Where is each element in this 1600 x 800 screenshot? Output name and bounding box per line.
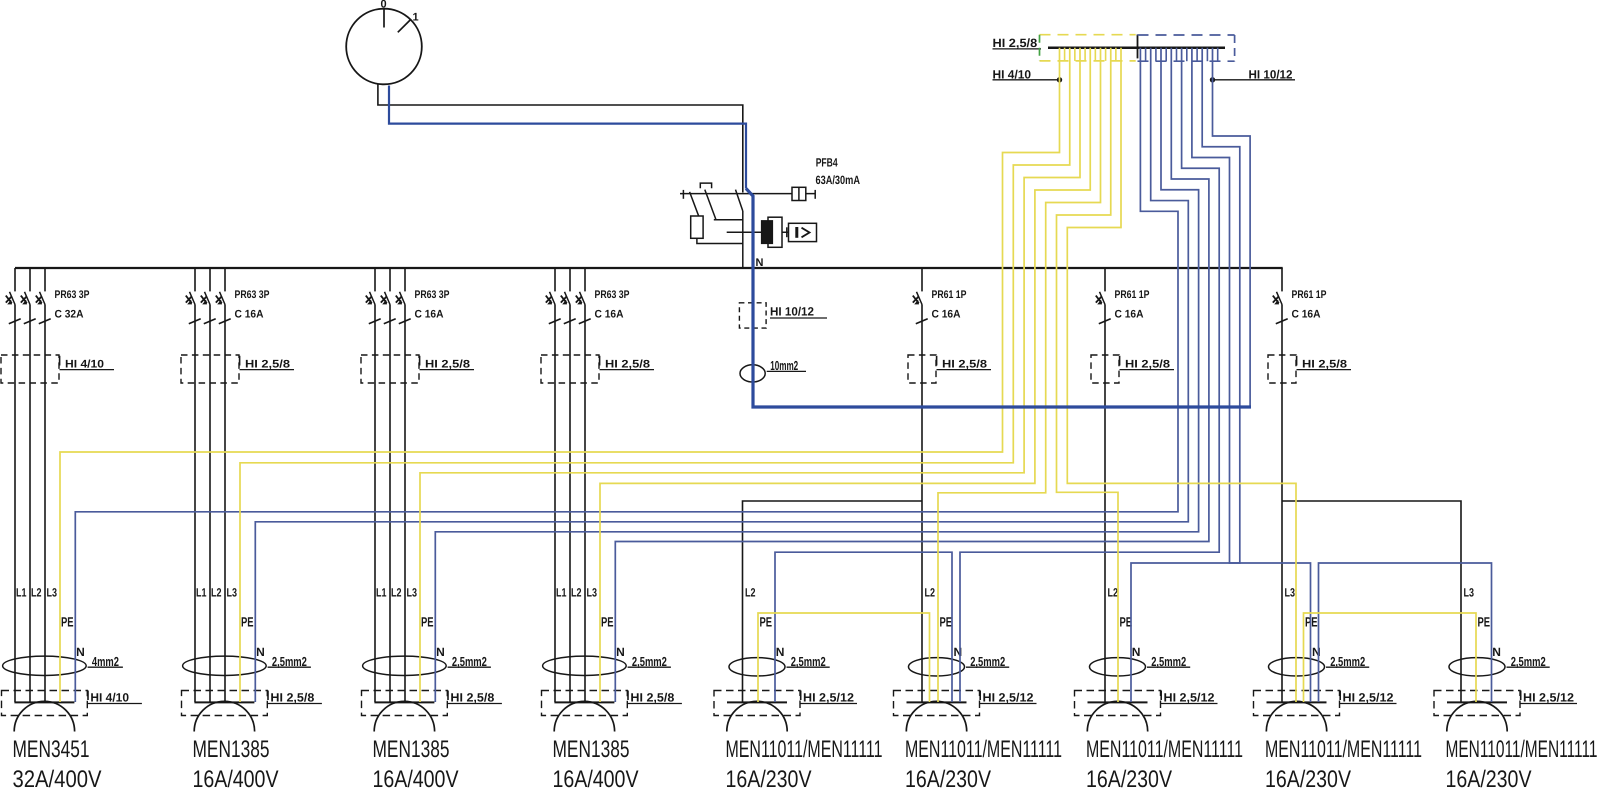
svg-text:PE: PE: [421, 615, 434, 630]
spare blue conductor stub 7: [1206, 48, 1208, 62]
breaker F5 pole (PR61 1P): [921, 268, 923, 291]
svg-text:HI 2,5/12: HI 2,5/12: [983, 690, 1034, 704]
wire N blue from tray to outlet 8 N: [1192, 48, 1311, 702]
cable box bracket outlet 4: [627, 691, 629, 701]
RCD right terminal tick: [814, 190, 816, 199]
leader dot HI 4/10: [1057, 77, 1062, 82]
svg-text:16A/230V: 16A/230V: [905, 766, 991, 793]
svg-text:PR63 3P: PR63 3P: [55, 289, 90, 301]
spare yellow conductor stub 2: [1074, 48, 1076, 61]
spare blue conductor stub 6: [1196, 48, 1198, 62]
RCD phase blade: [736, 190, 743, 211]
svg-text:16A/230V: 16A/230V: [1265, 766, 1351, 793]
svg-text:PE: PE: [1478, 615, 1491, 630]
cable box outlet 1: [2, 691, 88, 716]
svg-text:PR63 3P: PR63 3P: [235, 289, 270, 301]
svg-text:MEN1385: MEN1385: [553, 736, 630, 763]
label HI 2,5/12 underline outlet 7: [1161, 703, 1218, 705]
outlet 3 arc symbol: [374, 701, 434, 731]
label 2,5mm2 underline outlet 8: [1326, 666, 1369, 668]
label 2,5mm2 underline outlet 4: [628, 666, 671, 668]
RCD pole b link line: [714, 219, 743, 221]
svg-text:PE: PE: [940, 615, 953, 630]
cable box bracket outlet 6: [979, 691, 981, 701]
breaker F2 pole 2 (PR63 3P): [209, 268, 211, 291]
spare blue conductor stub 2: [1155, 48, 1157, 62]
svg-text:HI 10/12: HI 10/12: [770, 305, 814, 319]
label HI 2,5/12 underline outlet 8: [1340, 703, 1397, 705]
label underline under breaker F2: [240, 369, 295, 371]
svg-text:MEN1385: MEN1385: [193, 736, 270, 763]
breaker F1 pole 2 (PR63 3P): [29, 268, 31, 291]
outlet terminal bar 9: [1447, 701, 1507, 703]
outlet 2 arc symbol: [194, 701, 254, 731]
cable ellipse outlet 1: [3, 656, 87, 675]
svg-text:C 16A: C 16A: [932, 309, 961, 321]
leader dot HI 10/12: [1210, 77, 1215, 82]
wire N blue tray to N-bus end: [1213, 48, 1251, 407]
breaker F4 pole 3 (PR63 3P): [584, 268, 586, 291]
label HI 2,5/8 underline outlet 3: [448, 703, 502, 705]
RCD test button divider: [798, 187, 800, 200]
label underline under breaker F4: [600, 369, 655, 371]
wire PE yellow from tray to outlet 2 PE: [240, 48, 1070, 702]
label underline under breaker F1: [60, 369, 115, 371]
svg-text:HI 2,5/8: HI 2,5/8: [942, 359, 987, 371]
wire PE yellow from tray to outlet 3 PE: [420, 48, 1080, 702]
svg-text:L2: L2: [211, 586, 222, 600]
svg-text:HI 4/10: HI 4/10: [90, 690, 129, 704]
svg-text:L2: L2: [391, 586, 402, 600]
svg-text:L1: L1: [556, 586, 567, 600]
svg-text:L2: L2: [745, 586, 756, 600]
wire L2 breaker F3 to outlet 3: [389, 305, 391, 703]
outlet 7 arc symbol: [1087, 701, 1147, 731]
cable box bracket F6: [1119, 356, 1121, 366]
cable box under breaker F1: [1, 355, 59, 383]
svg-text:63A/30mA: 63A/30mA: [816, 173, 861, 187]
outlet 4 arc symbol: [554, 701, 614, 731]
spare yellow conductor stub 4: [1094, 48, 1096, 61]
breaker F1 pole 3 (PR63 3P): [44, 268, 46, 291]
label 2,5mm2 underline outlet 7: [1147, 666, 1190, 668]
cable ellipse outlet 8: [1269, 658, 1325, 676]
wire L2 breaker F6 to outlet 7: [1104, 305, 1106, 703]
svg-text:C 16A: C 16A: [235, 309, 264, 321]
label HI 2,5/12 underline outlet 9: [1521, 703, 1578, 705]
label 10mm2 underline: [767, 370, 806, 372]
wire L3 breaker F4 to outlet 4: [584, 305, 586, 703]
svg-text:L2: L2: [571, 586, 582, 600]
cable box under breaker F6: [1091, 355, 1119, 383]
wire L1 breaker F4 to outlet 4: [554, 305, 556, 703]
label 4mm2 underline outlet 1: [88, 666, 123, 668]
cable marker HI 10/12 dashed box: [739, 303, 766, 328]
outlet 9 arc symbol: [1447, 701, 1507, 731]
svg-text:L3: L3: [227, 586, 238, 600]
wire PE yellow from tray to outlet 1 PE: [60, 48, 1060, 702]
svg-text:HI 2,5/8: HI 2,5/8: [993, 36, 1038, 50]
svg-text:MEN11011/MEN11111: MEN11011/MEN11111: [1446, 736, 1598, 763]
outlet 5 arc symbol: [727, 701, 787, 731]
N bus from RCD (thick blue): [746, 189, 1251, 408]
svg-text:C 16A: C 16A: [415, 309, 444, 321]
svg-text:N: N: [954, 645, 963, 659]
svg-text:N: N: [756, 257, 764, 269]
svg-text:MEN11011/MEN11111: MEN11011/MEN11111: [1265, 736, 1422, 763]
svg-text:HI 2,5/12: HI 2,5/12: [1164, 690, 1215, 704]
RCD PFB4 terminal line: [680, 193, 815, 195]
cable box bracket F3: [419, 356, 421, 366]
outlet terminal bar 3: [374, 701, 434, 703]
RCD mechanical linkage: [700, 183, 711, 188]
leader HI 10/12: [1213, 79, 1296, 81]
wire neutral meter to RCD (blue): [389, 86, 746, 189]
outlet terminal bar 8: [1267, 701, 1327, 703]
svg-text:PFB4: PFB4: [816, 155, 838, 169]
svg-text:HI 2,5/12: HI 2,5/12: [803, 690, 854, 704]
spare yellow conductor stub 1: [1064, 48, 1066, 61]
label HI 2,5/12 underline outlet 5: [801, 703, 858, 705]
label HI 2,5/8 top underline: [993, 48, 1042, 50]
cable ellipse outlet 3: [363, 656, 447, 675]
wire L2 tap outlet 6 to outlet 5: [743, 501, 923, 702]
label HI 2,5/8 underline outlet 4: [628, 703, 682, 705]
RCD relay symbol arrow: [802, 228, 810, 238]
cable tray divider: [1137, 35, 1139, 59]
svg-text:PR61 1P: PR61 1P: [1115, 289, 1150, 301]
cable box outlet 5: [714, 691, 800, 716]
cable box outlet 4: [542, 691, 628, 716]
spare yellow conductor stub 5: [1105, 48, 1107, 61]
RCD toroid outline: [768, 217, 782, 247]
wire N blue from tray to outlet 7 N: [1131, 48, 1240, 702]
svg-text:N: N: [256, 645, 265, 659]
wire PE yellow from tray to outlet 4 PE: [600, 48, 1090, 702]
cable ellipse outlet 2: [183, 656, 267, 675]
svg-text:L3: L3: [587, 586, 598, 600]
svg-text:HI 2,5/8: HI 2,5/8: [1302, 359, 1347, 371]
cable box bracket outlet 5: [800, 691, 802, 701]
label HI 2,5/8 underline outlet 2: [268, 703, 322, 705]
outlet 1 arc symbol: [14, 701, 74, 731]
wire L3 breaker F7 to outlet 8: [1281, 305, 1283, 703]
svg-text:16A/230V: 16A/230V: [726, 766, 812, 793]
meter position tick 1: [398, 20, 411, 32]
wire PE yellow from tray to outlet 8 PE: [1067, 48, 1296, 702]
svg-text:HI 4/10: HI 4/10: [65, 359, 104, 371]
outlet terminal bar 5: [727, 701, 787, 703]
RCD relay symbol I: [795, 227, 798, 238]
spare yellow conductor stub 6: [1115, 48, 1117, 61]
svg-text:HI 2,5/8: HI 2,5/8: [450, 690, 494, 704]
svg-text:N: N: [1132, 645, 1141, 659]
cable box bracket outlet 7: [1160, 691, 1162, 701]
outlet terminal bar 1: [14, 701, 74, 703]
svg-text:PE: PE: [241, 615, 254, 630]
label HI 4/10 underline outlet 1: [88, 703, 142, 705]
svg-text:L1: L1: [196, 586, 207, 600]
svg-text:PE: PE: [760, 615, 773, 630]
breaker F2 pole 1 (PR63 3P): [194, 268, 196, 291]
wire PE bridge outlet 8 to outlet 9 (yellow): [1304, 613, 1477, 702]
cable box under breaker F7: [1268, 355, 1296, 383]
main switch meter symbol (circle): [346, 9, 422, 85]
wire L2 breaker F4 to outlet 4: [569, 305, 571, 703]
cable box outlet 9: [1434, 691, 1520, 716]
cable box under breaker F3: [361, 355, 419, 383]
svg-text:HI 2,5/12: HI 2,5/12: [1343, 690, 1394, 704]
svg-text:N: N: [616, 645, 625, 659]
svg-text:MEN11011/MEN11111: MEN11011/MEN11111: [726, 736, 883, 763]
label 2,5mm2 underline outlet 3: [448, 666, 491, 668]
cable box outlet 7: [1075, 691, 1161, 716]
label underline under breaker F3: [420, 369, 475, 371]
wire PE bridge outlet 6 to outlet 5 (yellow): [758, 613, 930, 702]
RCD relay box tick: [786, 227, 788, 237]
label 2,5mm2 underline outlet 9: [1507, 666, 1550, 668]
cable tray bus bar: [1048, 46, 1225, 49]
wire PE yellow from tray to outlet 7 PE: [1057, 48, 1119, 702]
svg-text:HI 2,5/8: HI 2,5/8: [1125, 359, 1170, 371]
cable box bracket outlet 2: [267, 691, 269, 701]
cable tray yellow dashed box (HI 2,5/8): [1040, 34, 1136, 36]
wire N blue from tray to outlet 2 N: [255, 48, 1188, 702]
RCD test button box: [792, 187, 806, 200]
spare blue conductor stub 4: [1176, 48, 1178, 62]
cable box bracket outlet 3: [447, 691, 449, 701]
cable box bracket outlet 1: [87, 691, 89, 701]
cable ellipse outlet 9: [1449, 658, 1505, 676]
svg-text:C 32A: C 32A: [55, 309, 84, 321]
svg-text:N: N: [436, 645, 445, 659]
svg-text:HI 2,5/8: HI 2,5/8: [270, 690, 314, 704]
main bus bar L: [15, 267, 1283, 269]
cable box outlet 8: [1254, 691, 1340, 716]
svg-text:32A/400V: 32A/400V: [13, 766, 102, 793]
svg-text:PR61 1P: PR61 1P: [1292, 289, 1327, 301]
cable box outlet 6: [894, 691, 980, 716]
breaker F2 pole 3 (PR63 3P): [224, 268, 226, 291]
cable box under breaker F4: [541, 355, 599, 383]
label 2,5mm2 underline outlet 2: [268, 666, 311, 668]
wire N blue from tray to outlet 6 N: [960, 48, 1219, 702]
cable ellipse outlet 4: [543, 656, 627, 675]
cable box bracket F5: [936, 356, 938, 366]
wire L2 breaker F1 to outlet 1: [29, 305, 31, 703]
svg-text:PR61 1P: PR61 1P: [932, 289, 967, 301]
wire L1 breaker F1 to outlet 1: [14, 305, 16, 703]
svg-text:C 16A: C 16A: [1115, 309, 1144, 321]
svg-text:PE: PE: [601, 615, 614, 630]
RCD relay box I>: [789, 223, 817, 241]
outlet terminal bar 4: [554, 701, 614, 703]
outlet 6 arc symbol: [906, 701, 966, 731]
svg-text:HI 2,5/8: HI 2,5/8: [605, 359, 650, 371]
svg-text:N: N: [776, 645, 785, 659]
wire N blue from tray to outlet 4 N: [615, 48, 1209, 702]
cable box bracket F2: [239, 356, 241, 366]
label underline under breaker F7: [1297, 369, 1352, 371]
cable box bracket outlet 9: [1520, 691, 1522, 701]
svg-text:N: N: [1492, 645, 1501, 659]
svg-text:PE: PE: [61, 615, 74, 630]
cable size marker ellipse 10mm2: [740, 365, 765, 382]
cable box bracket F7: [1296, 356, 1298, 366]
cable box under breaker F5: [908, 355, 936, 383]
RCD phase output wire: [742, 211, 744, 269]
label underline under breaker F5: [937, 369, 992, 371]
svg-text:L2: L2: [31, 586, 42, 600]
cable ellipse outlet 6: [909, 658, 965, 676]
label 2,5mm2 underline outlet 6: [966, 666, 1009, 668]
wire N blue from tray to outlet 3 N: [435, 48, 1198, 702]
wire L3 breaker F1 to outlet 1: [44, 305, 46, 703]
svg-text:L3: L3: [47, 586, 58, 600]
breaker F3 pole 2 (PR63 3P): [389, 268, 391, 291]
svg-text:C 16A: C 16A: [1292, 309, 1321, 321]
RCD trip coil: [691, 216, 703, 238]
svg-text:16A/230V: 16A/230V: [1086, 766, 1172, 793]
outlet 8 arc symbol: [1266, 701, 1326, 731]
label HI 2,5/12 underline outlet 6: [980, 703, 1037, 705]
RCD sensing line: [727, 231, 789, 233]
svg-text:C 16A: C 16A: [595, 309, 624, 321]
RCD toroid core (filled): [761, 221, 772, 244]
svg-text:L3: L3: [1285, 586, 1296, 600]
RCD pole blade b: [705, 190, 716, 220]
cable box bracket F4: [599, 356, 601, 366]
wire L2 breaker F2 to outlet 2: [209, 305, 211, 703]
svg-text:L3: L3: [407, 586, 418, 600]
spare blue conductor stub 1: [1145, 48, 1147, 62]
wire L3 breaker F3 to outlet 3: [404, 305, 406, 703]
cable ellipse outlet 5: [729, 658, 785, 676]
svg-text:HI 2,5/8: HI 2,5/8: [245, 359, 290, 371]
svg-text:16A/400V: 16A/400V: [193, 766, 279, 793]
leader HI 4/10: [993, 79, 1060, 81]
spare yellow conductor stub 3: [1084, 48, 1086, 61]
spare blue conductor stub 5: [1186, 48, 1188, 62]
outlet terminal bar 2: [194, 701, 254, 703]
meter position tick 0: [383, 10, 385, 28]
spare blue conductor stub 8: [1217, 48, 1219, 62]
wire PE yellow from tray to outlet 6 PE: [938, 48, 1101, 702]
breaker F6 pole (PR61 1P): [1104, 268, 1106, 291]
wire N blue from tray to outlet 1 N: [75, 48, 1178, 702]
svg-text:16A/230V: 16A/230V: [1446, 766, 1532, 793]
svg-text:0: 0: [381, 0, 387, 11]
svg-text:L3: L3: [1464, 586, 1475, 600]
svg-text:HI 2,5/8: HI 2,5/8: [425, 359, 470, 371]
label HI 10/12 underline: [770, 317, 827, 319]
spare blue conductor stub 3: [1165, 48, 1167, 62]
wire L1 breaker F3 to outlet 3: [374, 305, 376, 703]
RCD pole blade a: [690, 192, 699, 216]
cable box bracket outlet 8: [1339, 691, 1341, 701]
wire phase meter to RCD: [378, 84, 743, 192]
svg-text:MEN1385: MEN1385: [373, 736, 450, 763]
svg-text:L2: L2: [1108, 586, 1119, 600]
svg-text:MEN11011/MEN11111: MEN11011/MEN11111: [1086, 736, 1243, 763]
svg-text:MEN3451: MEN3451: [13, 736, 90, 763]
label 2,5mm2 underline outlet 5: [787, 666, 830, 668]
svg-text:N: N: [76, 645, 85, 659]
wire L3 tap outlet 8 to outlet 9: [1282, 501, 1461, 702]
svg-text:PR63 3P: PR63 3P: [595, 289, 630, 301]
svg-text:HI 2,5/12: HI 2,5/12: [1523, 690, 1574, 704]
wire L1 breaker F2 to outlet 2: [194, 305, 196, 703]
cable box under breaker F2: [181, 355, 239, 383]
breaker F7 pole (PR61 1P): [1281, 268, 1283, 291]
svg-text:HI 2,5/8: HI 2,5/8: [630, 690, 674, 704]
label underline under breaker F6: [1120, 369, 1175, 371]
svg-text:MEN11011/MEN11111: MEN11011/MEN11111: [905, 736, 1062, 763]
RCD trip coil wire: [697, 238, 743, 243]
svg-text:L2: L2: [925, 586, 936, 600]
cable tray blue dashed box (HI 10/12): [1138, 34, 1235, 36]
cable box outlet 3: [362, 691, 448, 716]
svg-text:L1: L1: [376, 586, 387, 600]
svg-text:16A/400V: 16A/400V: [373, 766, 459, 793]
svg-text:N: N: [1312, 645, 1321, 659]
wire N bridge outlet 8 to outlet 9 (blue): [1319, 563, 1492, 702]
wire L2 breaker F5 to outlet 6: [921, 305, 923, 703]
svg-text:L1: L1: [16, 586, 27, 600]
cable ellipse outlet 7: [1090, 658, 1146, 676]
RCD left terminal tick: [682, 190, 684, 199]
breaker F1 pole 1 (PR63 3P): [14, 268, 16, 291]
svg-text:1: 1: [413, 12, 419, 24]
svg-text:16A/400V: 16A/400V: [553, 766, 639, 793]
cable box outlet 2: [182, 691, 268, 716]
wire L3 breaker F2 to outlet 2: [224, 305, 226, 703]
breaker F3 pole 1 (PR63 3P): [374, 268, 376, 291]
wire N bridge outlet 6 to outlet 5 (blue): [775, 552, 952, 702]
breaker F4 pole 1 (PR63 3P): [554, 268, 556, 291]
breaker F4 pole 2 (PR63 3P): [569, 268, 571, 291]
svg-text:PR63 3P: PR63 3P: [415, 289, 450, 301]
outlet terminal bar 6: [907, 701, 967, 703]
breaker F3 pole 3 (PR63 3P): [404, 268, 406, 291]
cable box bracket F1: [59, 356, 61, 366]
outlet terminal bar 7: [1088, 701, 1148, 703]
